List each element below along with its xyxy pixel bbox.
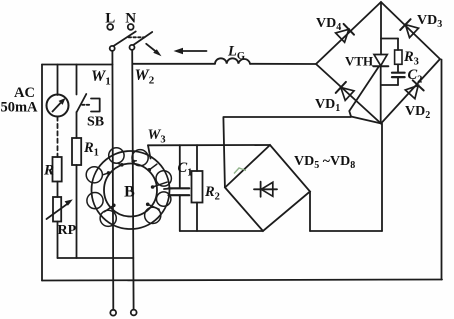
svg-text:VD4: VD4 [316, 16, 341, 33]
svg-text:W3: W3 [148, 127, 166, 146]
svg-text:SB: SB [87, 115, 104, 130]
svg-text:LG: LG [227, 44, 245, 63]
svg-text:VD1: VD1 [315, 97, 340, 114]
svg-text:R: R [43, 163, 54, 179]
svg-text:W1: W1 [91, 68, 111, 88]
svg-text:VD2: VD2 [405, 104, 430, 121]
svg-text:R3: R3 [403, 49, 419, 68]
svg-text:L: L [105, 11, 115, 27]
svg-text:RP: RP [58, 223, 77, 238]
svg-text:C1: C1 [178, 160, 193, 179]
svg-text:B: B [124, 184, 135, 201]
svg-text:VD5 ~VD8: VD5 ~VD8 [294, 154, 355, 171]
svg-text:C2: C2 [408, 67, 423, 86]
svg-text:R1: R1 [83, 140, 99, 159]
svg-text:VTH: VTH [345, 54, 373, 69]
svg-text:50mA: 50mA [0, 100, 38, 116]
svg-text:R2: R2 [204, 184, 220, 203]
svg-text:W2: W2 [135, 67, 155, 87]
svg-text:N: N [125, 11, 136, 27]
svg-text:VD3: VD3 [417, 13, 442, 30]
